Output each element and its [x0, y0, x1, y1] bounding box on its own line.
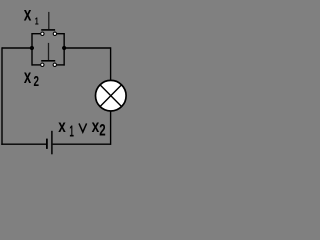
svg-text:x: x: [24, 5, 32, 26]
svg-text:x: x: [24, 67, 32, 88]
svg-text:1: 1: [35, 17, 39, 28]
svg-text:1: 1: [69, 124, 74, 141]
svg-text:x: x: [58, 116, 66, 136]
svg-text:2: 2: [34, 74, 40, 90]
svg-text:2: 2: [99, 122, 105, 140]
